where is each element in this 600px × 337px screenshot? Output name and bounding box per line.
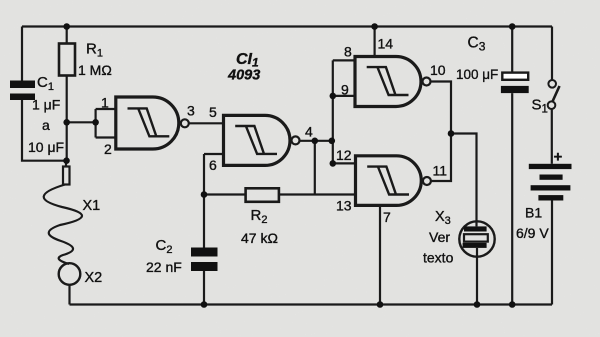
- switch S1: [548, 80, 560, 109]
- gate U1a input bracket: [94, 109, 96, 138]
- svg-text:10 μF: 10 μF: [28, 139, 64, 155]
- svg-text:X1: X1: [83, 198, 101, 214]
- wire C1 bottom down and right to node X1: [22, 100, 67, 161]
- gate U1c output bubble pin 10: [423, 78, 431, 86]
- svg-text:X2: X2: [85, 270, 103, 286]
- svg-text:11: 11: [433, 163, 448, 179]
- svg-text:6: 6: [209, 157, 217, 173]
- node pin12 junction: [330, 160, 337, 167]
- battery B1: [529, 164, 572, 201]
- wire X1 node to electrode: [65, 161, 67, 167]
- wire C3 column top: [511, 27, 513, 73]
- wire feedback node down to C2: [203, 195, 205, 248]
- svg-text:4093: 4093: [227, 68, 260, 84]
- wire feedback node to R2: [204, 193, 246, 195]
- op-amp gate U1b body: [224, 115, 290, 165]
- wire bottom rail: [70, 303, 553, 305]
- node pin4 junction left: [312, 138, 319, 145]
- gate U1a hysteresis symbol: [128, 108, 170, 136]
- svg-text:Ver: Ver: [429, 229, 450, 245]
- wire pin 6 stub: [204, 153, 224, 155]
- wire pin 14 to top rail: [374, 27, 376, 57]
- transducer X3: [459, 221, 494, 256]
- svg-text:12: 12: [336, 147, 352, 163]
- op-amp gate U1c body: [355, 57, 421, 107]
- wire pin4 node up-down link to gates U1c U1d inputs: [332, 60, 334, 163]
- wire pin 1 stub: [96, 108, 116, 110]
- svg-text:1 MΩ: 1 MΩ: [78, 62, 112, 78]
- wire X2 down to bottom rail: [68, 284, 70, 305]
- wire switch to battery: [551, 109, 553, 164]
- wire node a down to X1 node: [66, 122, 68, 160]
- node bottom rail X3 junction: [474, 301, 481, 308]
- svg-text:8: 8: [344, 44, 352, 60]
- svg-text:+: +: [554, 149, 563, 166]
- op-amp gate U1a body: [116, 97, 179, 149]
- svg-text:22 nF: 22 nF: [146, 259, 182, 275]
- wire R1 to node a: [66, 76, 68, 123]
- wire X1 flexible lead (squiggle): [44, 185, 82, 265]
- wire pin 6 column down to feedback node: [203, 154, 205, 195]
- wire pin 9 stub: [333, 95, 355, 97]
- node bottom rail C3 junction: [509, 301, 516, 308]
- svg-text:2: 2: [104, 141, 112, 157]
- svg-text:1: 1: [101, 95, 109, 111]
- wire R1 column top: [66, 27, 68, 44]
- probe tip X2: [59, 263, 81, 285]
- wire pin 4 output: [300, 140, 332, 142]
- node bottom rail pin7 junction: [377, 301, 384, 308]
- wire pin 7 to bottom rail: [379, 205, 381, 304]
- node top rail C3 junction: [509, 23, 516, 30]
- node top rail R1 junction: [63, 23, 70, 30]
- gate U1d hysteresis symbol: [367, 167, 409, 195]
- capacitor C1: [10, 81, 35, 101]
- svg-text:14: 14: [378, 36, 394, 52]
- gate U1a output bubble pin 3: [181, 119, 189, 127]
- node top rail pin14 junction: [371, 23, 378, 30]
- wire C2 down to bottom rail: [203, 271, 205, 305]
- wire R2 to pin 13: [279, 193, 356, 195]
- resistor R2: [246, 188, 279, 202]
- wire pin 2 stub: [96, 136, 116, 138]
- svg-text:6/9 V: 6/9 V: [516, 225, 549, 241]
- svg-text:a: a: [42, 117, 50, 133]
- gate U1b hysteresis symbol: [235, 126, 277, 154]
- wire junction to X3: [451, 134, 477, 223]
- op-amp gate U1d body: [356, 156, 422, 206]
- gate U1c hysteresis symbol: [367, 67, 409, 95]
- wire right edge down to switch: [551, 27, 553, 80]
- svg-text:texto: texto: [423, 250, 454, 266]
- svg-text:7: 7: [383, 209, 391, 225]
- gate U1d output bubble pin 11: [423, 177, 431, 185]
- resistor R1: [59, 44, 75, 76]
- node pin9 junction: [330, 93, 337, 100]
- svg-text:13: 13: [336, 198, 352, 214]
- wire node a horizontal: [67, 121, 96, 123]
- wire pin 3 to pin 5: [189, 122, 224, 124]
- capacitor C3: [501, 73, 529, 94]
- wire pin4 node down to feedback line: [314, 141, 316, 195]
- node bottom rail C2 junction: [201, 301, 208, 308]
- svg-text:4: 4: [305, 124, 313, 140]
- svg-text:B1: B1: [525, 205, 542, 221]
- svg-text:5: 5: [209, 104, 217, 120]
- wire pin 12 stub: [333, 162, 356, 164]
- node pins 10-11 junction: [448, 130, 455, 137]
- wire top rail: [22, 25, 552, 27]
- svg-text:1 μF: 1 μF: [32, 97, 60, 113]
- node feedback junction C2: [201, 191, 208, 198]
- svg-text:100 μF: 100 μF: [456, 67, 498, 82]
- capacitor C2: [191, 248, 218, 272]
- gate U1b output bubble pin 4: [292, 136, 300, 144]
- wire pin 11 right and up: [431, 134, 451, 182]
- wire pin 10 right and down: [431, 82, 452, 134]
- wire X3 down to bottom rail: [476, 257, 478, 305]
- wire left edge (top rail down to C1): [21, 27, 23, 81]
- wire pin 8 stub: [333, 59, 355, 61]
- wire battery to bottom rail: [551, 201, 553, 305]
- wire C3 down to bottom rail: [511, 93, 513, 304]
- node a junction gate input: [92, 119, 99, 126]
- probe X1 electrode: [63, 167, 70, 185]
- svg-text:9: 9: [341, 82, 349, 98]
- svg-text:3: 3: [187, 103, 195, 119]
- node a junction R1: [63, 119, 70, 126]
- svg-text:47 kΩ: 47 kΩ: [241, 230, 278, 246]
- node pin4 junction right: [329, 138, 336, 145]
- node X1 junction: [63, 157, 70, 164]
- svg-text:10: 10: [430, 62, 446, 78]
